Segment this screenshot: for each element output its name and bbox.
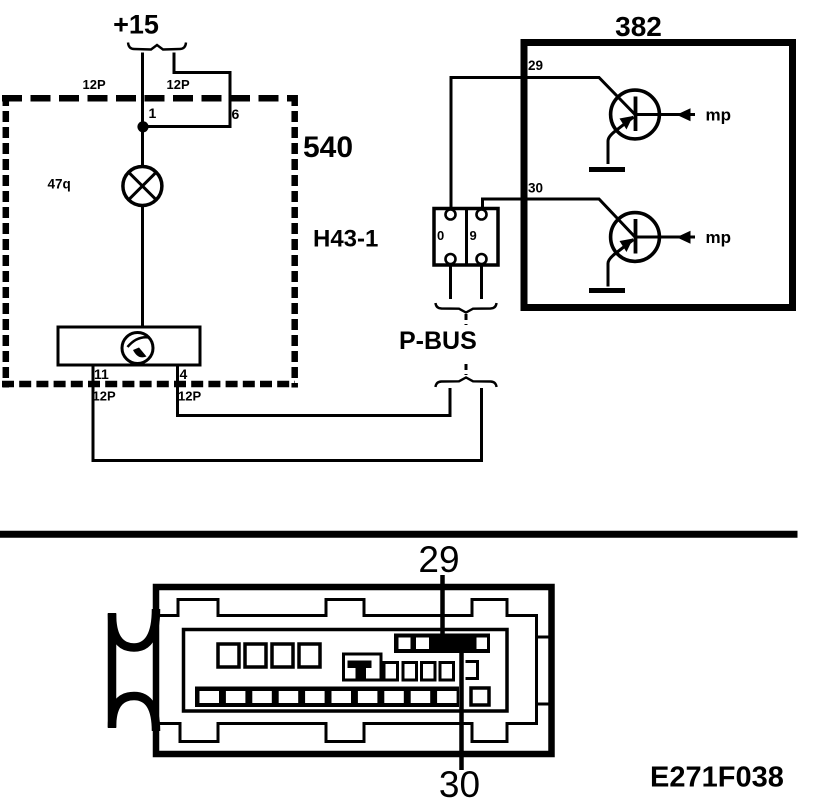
wire pin 4 to P-BUS: [178, 365, 451, 416]
transistor Q2: [608, 213, 695, 287]
dashed box 540 top edge: [2, 95, 295, 102]
svg-text:E271F038: E271F038: [650, 762, 784, 794]
wire lamp to instrument: [141, 206, 144, 329]
pin block bottom row: [195, 687, 459, 708]
svg-text:47q: 47q: [48, 177, 71, 192]
dashed link upper: [465, 314, 468, 325]
ECU box 382: [524, 43, 793, 308]
wire connector to pin 30 of 382: [483, 199, 636, 237]
key mark T: [348, 661, 372, 680]
connector clip top hook: [112, 609, 156, 648]
wire +15 to pin 6: [147, 53, 230, 127]
P-BUS connector: [434, 209, 498, 266]
svg-text:12P: 12P: [93, 389, 116, 404]
wire connector to pin 29 of 382: [451, 78, 635, 210]
pin block top right with pins 29-30 highlighted: [394, 634, 490, 654]
svg-text:30: 30: [439, 764, 480, 804]
lamp 47q: [123, 167, 162, 206]
pin bracket row2 end: [466, 662, 478, 679]
svg-text:0: 0: [437, 228, 444, 243]
svg-text:29: 29: [418, 539, 459, 580]
dashed box 540 right edge: [291, 95, 298, 388]
svg-text:382: 382: [615, 11, 662, 42]
pin square bottom right separate: [471, 688, 489, 705]
connector stub wire right: [480, 265, 483, 299]
gauge symbol: [122, 333, 153, 364]
connector shell link upper right: [536, 636, 551, 639]
transistor Q1: [608, 90, 695, 164]
dashed link lower: [465, 364, 468, 375]
ground Q1: [589, 167, 625, 172]
svg-text:540: 540: [303, 131, 353, 164]
connector stub wire left: [449, 265, 452, 299]
svg-text:+15: +15: [113, 10, 159, 40]
wire +15 to pin 1: [141, 53, 144, 124]
pin square row2 d: [440, 663, 454, 681]
wire pin 11 to P-BUS: [93, 365, 482, 461]
pin block middle keyed cell: [344, 654, 382, 680]
pin square row1 b: [245, 644, 266, 667]
svg-text:1: 1: [149, 105, 157, 121]
connector housing outer shell: [156, 587, 552, 754]
svg-text:6: 6: [232, 106, 240, 122]
svg-text:mp: mp: [706, 106, 732, 125]
junction node dot: [137, 121, 148, 132]
connector retaining clip bar: [108, 613, 117, 728]
connector shell link lower right: [536, 703, 551, 706]
svg-text:29: 29: [528, 58, 543, 73]
pin square row1 a: [218, 644, 239, 667]
pin square row2 a: [384, 663, 398, 681]
pin square row2 c: [422, 663, 436, 681]
dashed box 540 bottom edge: [2, 381, 295, 388]
svg-text:30: 30: [528, 181, 543, 196]
brace above P-BUS: [436, 303, 497, 313]
separator line: [0, 531, 798, 538]
svg-text:12P: 12P: [178, 389, 201, 404]
dashed box 540 left edge: [3, 95, 10, 388]
svg-text:mp: mp: [706, 228, 732, 247]
svg-text:12P: 12P: [83, 77, 106, 92]
pin square row1 c: [272, 644, 293, 667]
wire 29 callout: [440, 575, 445, 640]
svg-text:11: 11: [94, 366, 109, 382]
brace under +15: [128, 43, 186, 50]
connector inner shell outline with keying tabs: [159, 600, 537, 742]
brace below P-BUS: [436, 378, 497, 388]
svg-text:9: 9: [470, 228, 477, 243]
svg-text:4: 4: [180, 366, 188, 382]
svg-text:P-BUS: P-BUS: [399, 327, 477, 355]
pin square row1 d: [299, 644, 320, 667]
wire 30 callout: [459, 650, 464, 770]
svg-text:12P: 12P: [167, 77, 190, 92]
instrument box: [58, 327, 200, 365]
svg-text:H43-1: H43-1: [313, 226, 378, 253]
ground Q2: [589, 288, 625, 293]
connector pin field frame: [184, 630, 508, 712]
pin square row2 b: [403, 663, 417, 681]
wire node to lamp: [141, 127, 144, 168]
connector clip bottom hook: [112, 696, 156, 731]
